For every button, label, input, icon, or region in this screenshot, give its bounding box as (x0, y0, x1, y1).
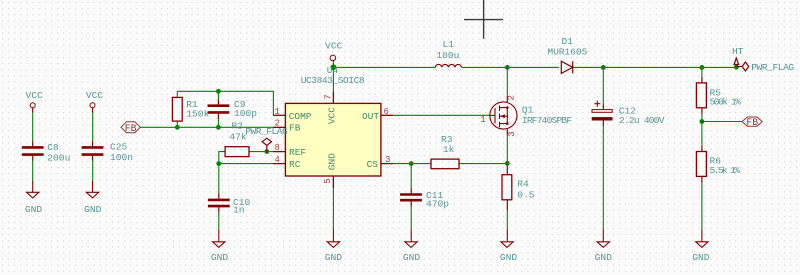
svg-text:500k 1%: 500k 1% (710, 97, 742, 108)
svg-text:470p: 470p (426, 198, 449, 209)
svg-text:47k: 47k (229, 132, 247, 143)
svg-text:3: 3 (385, 155, 390, 165)
svg-text:R4: R4 (517, 179, 529, 190)
svg-text:1n: 1n (233, 205, 245, 216)
svg-text:FB: FB (746, 117, 758, 128)
svg-text:7: 7 (324, 94, 334, 99)
svg-text:5: 5 (323, 178, 333, 183)
svg-text:GND: GND (84, 204, 102, 215)
svg-text:VCC: VCC (26, 90, 44, 101)
svg-text:1: 1 (275, 107, 280, 117)
svg-text:COMP: COMP (289, 111, 312, 122)
svg-text:PWR_FLAG: PWR_FLAG (245, 126, 288, 137)
svg-text:GND: GND (595, 252, 613, 263)
svg-text:VCC: VCC (86, 90, 104, 101)
svg-text:RC: RC (289, 159, 301, 170)
svg-text:GND: GND (500, 252, 518, 263)
svg-text:GND: GND (25, 204, 43, 215)
svg-text:8: 8 (275, 143, 280, 153)
svg-text:PWR_FLAG: PWR_FLAG (751, 62, 794, 73)
svg-text:IRF740SPBF: IRF740SPBF (522, 115, 572, 126)
svg-text:C25: C25 (110, 141, 128, 152)
svg-text:100n: 100n (110, 152, 133, 163)
svg-text:GND: GND (403, 252, 421, 263)
svg-text:D1: D1 (561, 36, 573, 47)
svg-text:VCC: VCC (327, 107, 338, 124)
svg-text:FB: FB (289, 123, 301, 134)
svg-text:UC3843_SOIC8: UC3843_SOIC8 (301, 75, 365, 86)
svg-text:GND: GND (692, 252, 710, 263)
svg-text:2: 2 (507, 95, 517, 100)
svg-text:3: 3 (507, 131, 517, 136)
svg-text:4: 4 (275, 155, 280, 165)
svg-text:1k: 1k (443, 144, 455, 155)
svg-text:MUR1605: MUR1605 (547, 47, 587, 58)
svg-text:L1: L1 (442, 39, 454, 50)
svg-text:GND: GND (211, 252, 229, 263)
svg-text:6: 6 (384, 107, 389, 117)
svg-text:5.5k 1%: 5.5k 1% (710, 165, 741, 176)
svg-text:0.5: 0.5 (517, 190, 535, 201)
svg-text:HT: HT (732, 46, 744, 57)
svg-text:1: 1 (480, 115, 485, 125)
svg-text:R2: R2 (232, 121, 244, 132)
svg-text:200u: 200u (47, 153, 70, 164)
svg-text:100p: 100p (234, 108, 257, 119)
svg-text:REF: REF (289, 147, 306, 158)
svg-text:C8: C8 (47, 142, 59, 153)
svg-text:150k: 150k (186, 108, 209, 119)
svg-text:2: 2 (275, 118, 280, 128)
svg-text:VCC: VCC (325, 41, 343, 52)
svg-text:CS: CS (367, 159, 379, 170)
svg-text:GND: GND (327, 153, 338, 170)
svg-text:GND: GND (325, 252, 343, 263)
svg-text:100u: 100u (436, 50, 459, 61)
svg-text:FB: FB (125, 123, 137, 134)
svg-text:Q1: Q1 (522, 105, 534, 116)
svg-text:2.2u 400V: 2.2u 400V (619, 115, 665, 126)
svg-text:OUT: OUT (362, 111, 379, 122)
